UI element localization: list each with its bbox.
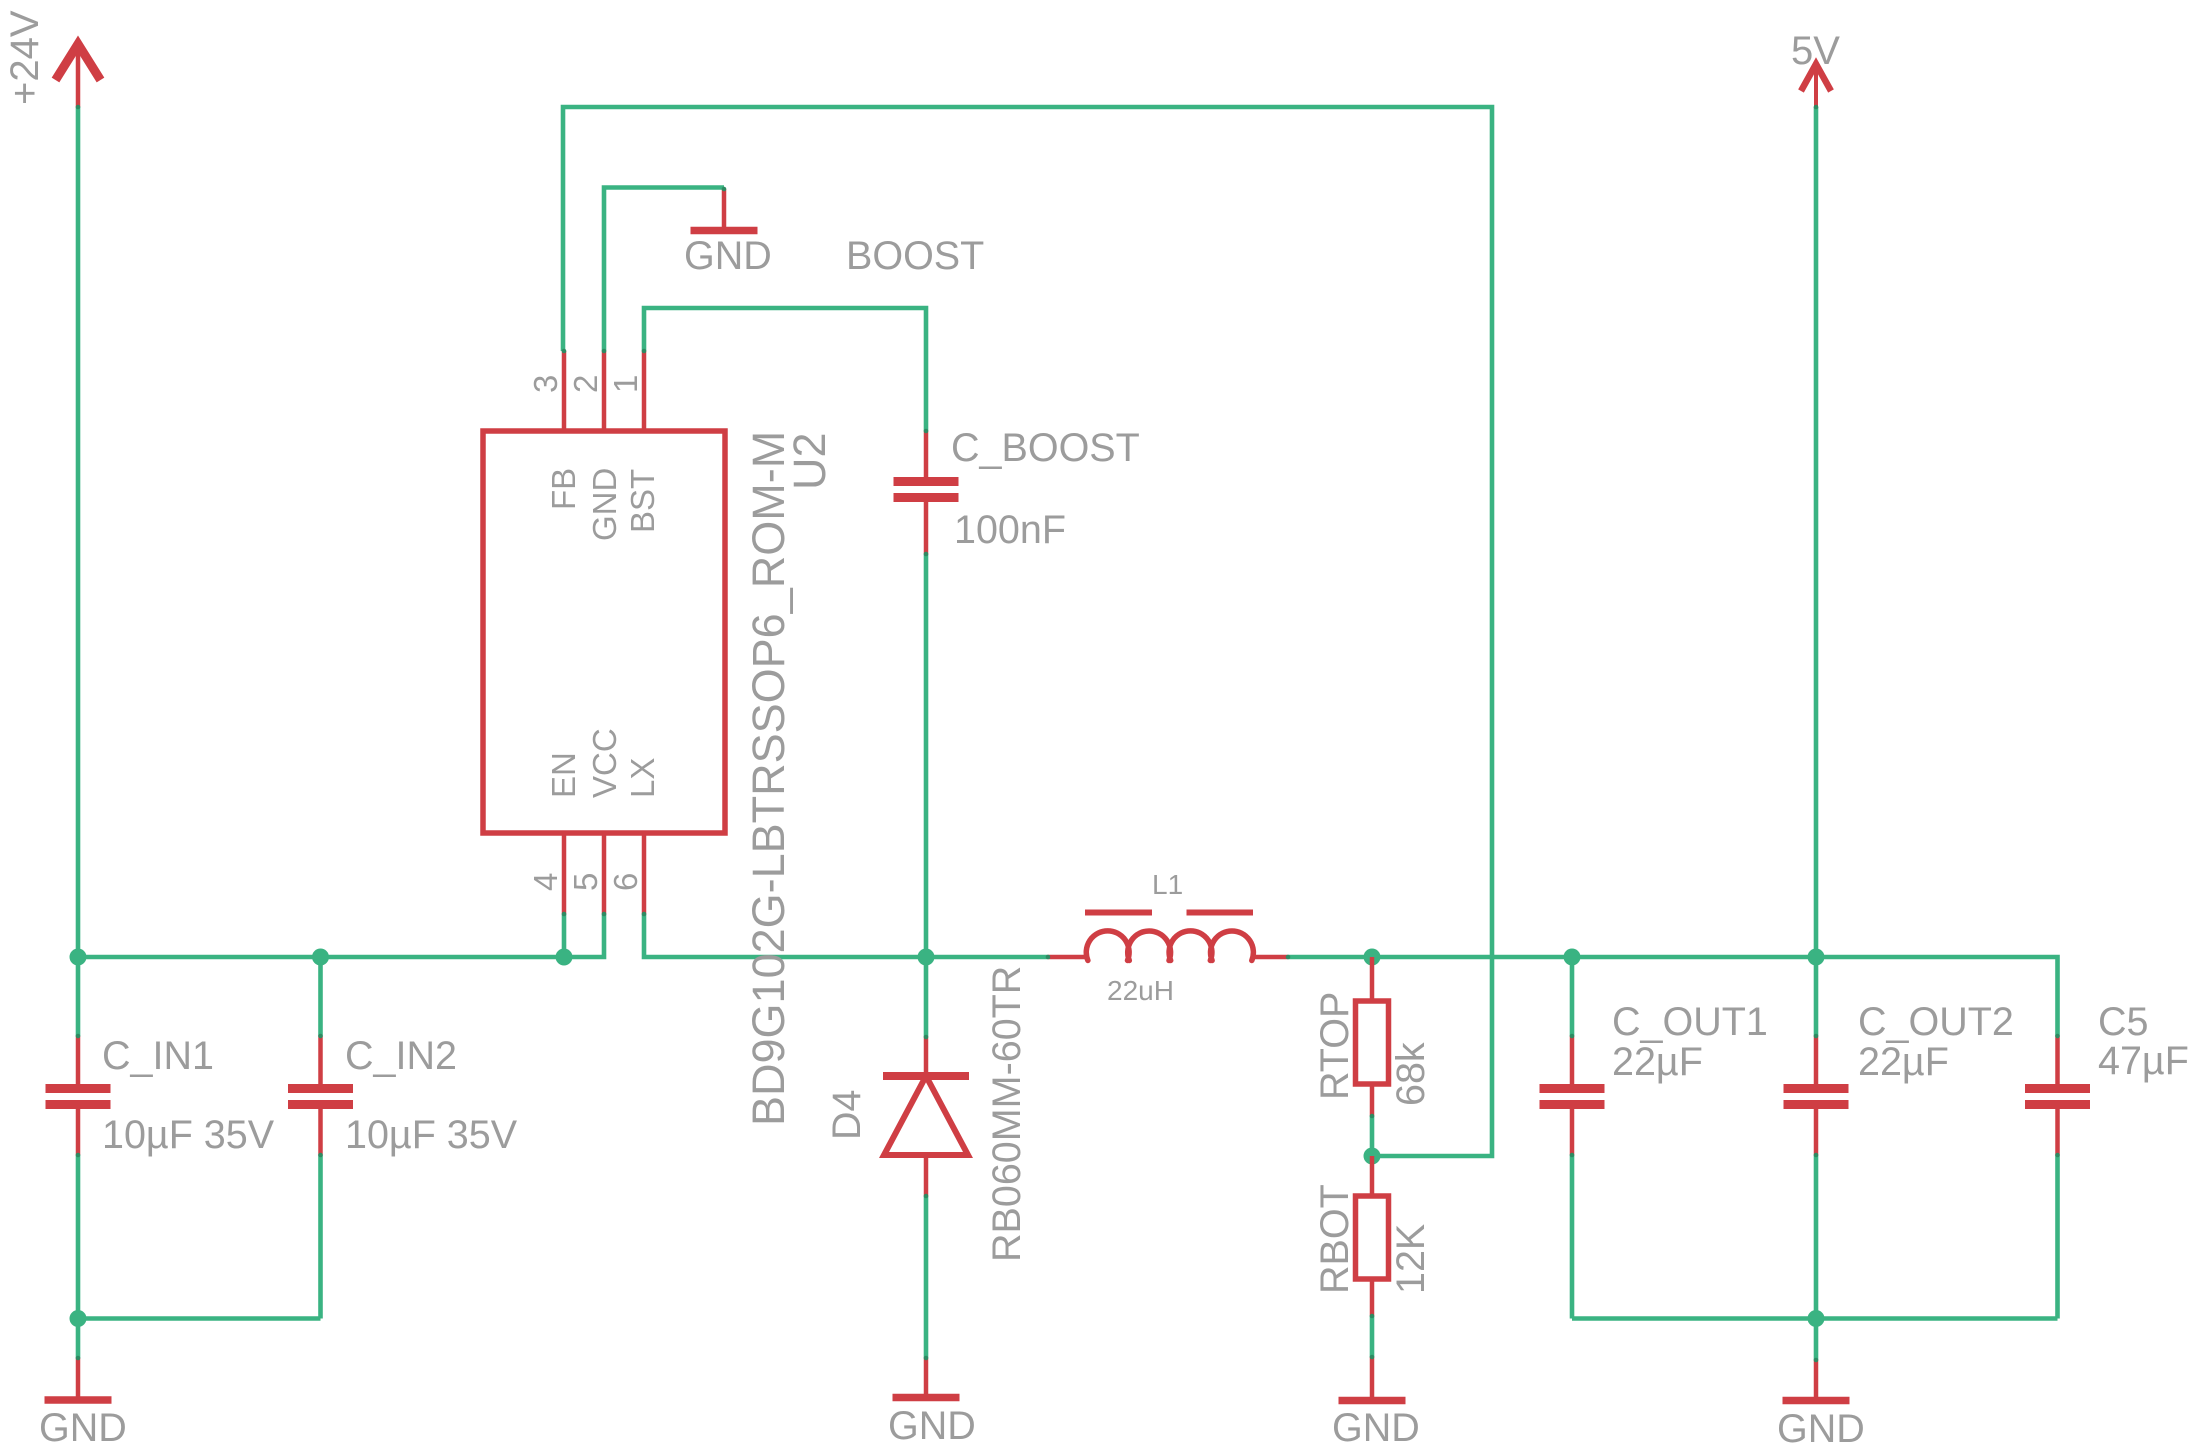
svg-text:22µF: 22µF <box>1858 1040 1949 1084</box>
op-amp U2 IC body <box>483 431 725 833</box>
wire C_OUT1 drop <box>1570 957 1575 1036</box>
svg-text:L1: L1 <box>1152 869 1183 900</box>
svg-text:68k: 68k <box>1389 1042 1433 1106</box>
svg-text:GND: GND <box>684 234 772 278</box>
wire BOOST net <box>644 308 926 431</box>
wire pin4 EN drop <box>562 914 567 957</box>
pin 4 stub <box>562 833 567 914</box>
svg-text:100nF: 100nF <box>954 508 1066 552</box>
svg-text:VCC: VCC <box>586 728 623 798</box>
svg-text:RB060MM-60TR: RB060MM-60TR <box>985 966 1029 1262</box>
capacitor C_BOOST <box>894 431 959 554</box>
wire +24V rail <box>76 107 81 957</box>
svg-text:12K: 12K <box>1389 1224 1433 1294</box>
capacitor C_OUT2 <box>1784 1036 1849 1155</box>
svg-text:RTOP: RTOP <box>1313 992 1357 1100</box>
wire L1 to output <box>1288 957 2058 1036</box>
svg-text:5V: 5V <box>1791 29 1840 73</box>
ground left GND <box>45 1358 112 1400</box>
wire left GND stub <box>76 1319 81 1359</box>
junction C_IN2/bus <box>312 949 329 966</box>
capacitor C_IN1 <box>46 1036 111 1155</box>
wire LX net <box>644 914 1048 957</box>
svg-text:BD9G102G-LBTRSSOP6_ROM-M: BD9G102G-LBTRSSOP6_ROM-M <box>743 431 794 1126</box>
ground D4 GND <box>893 1358 960 1398</box>
pin 2 stub <box>602 351 607 431</box>
svg-text:C5: C5 <box>2098 1000 2149 1044</box>
svg-text:4: 4 <box>527 873 564 891</box>
wire C_BOOST bottom <box>924 554 929 957</box>
wire right GND stub <box>1814 1319 1819 1361</box>
capacitor C_IN2 <box>288 1036 353 1155</box>
resistor RBOT <box>1356 1156 1389 1316</box>
wire RTOP-RBOT mid <box>1370 1116 1375 1156</box>
junction D4/LX <box>918 949 935 966</box>
svg-text:LX: LX <box>624 758 661 798</box>
svg-text:47µF: 47µF <box>2098 1039 2189 1083</box>
wire GND net <box>604 188 724 352</box>
junction RTOP/LX-out <box>1364 949 1381 966</box>
wire C_OUT1 bottom <box>1570 1155 1575 1319</box>
svg-text:C_OUT2: C_OUT2 <box>1858 1000 2014 1044</box>
pin 6 stub <box>642 833 647 914</box>
wire C_OUT2 bottom <box>1814 1155 1819 1319</box>
svg-text:10µF 35V: 10µF 35V <box>345 1113 518 1157</box>
svg-text:D4: D4 <box>825 1090 869 1141</box>
svg-text:1: 1 <box>607 375 644 393</box>
wire VIN bus <box>78 914 604 957</box>
svg-text:C_OUT1: C_OUT1 <box>1612 1000 1768 1044</box>
svg-text:RBOT: RBOT <box>1313 1184 1357 1294</box>
wire C_IN1 bottom <box>76 1155 81 1319</box>
ground RBOT GND <box>1339 1357 1406 1401</box>
junction FB divider <box>1364 1148 1381 1165</box>
svg-text:GND: GND <box>39 1406 127 1450</box>
capacitor C5 <box>2025 1036 2090 1155</box>
svg-text:C_IN2: C_IN2 <box>345 1034 457 1078</box>
svg-text:BOOST: BOOST <box>846 234 984 278</box>
svg-text:6: 6 <box>607 873 644 891</box>
svg-text:22µF: 22µF <box>1612 1040 1703 1084</box>
wire D4 top <box>924 957 929 1037</box>
svg-text:5: 5 <box>567 873 604 891</box>
pin 5 stub <box>602 833 607 914</box>
wire bottom right <box>1572 1316 2058 1321</box>
wire FB top <box>563 107 1492 1156</box>
wire bottom left <box>78 1316 321 1321</box>
capacitor C_OUT1 <box>1540 1036 1605 1155</box>
junction +24V/bus <box>70 949 87 966</box>
resistor RTOP <box>1356 957 1389 1116</box>
junction bottom right GND <box>1808 1310 1825 1327</box>
pin 3 stub <box>562 351 567 431</box>
svg-text:+24V: +24V <box>3 10 47 105</box>
junction 5V/out <box>1808 949 1825 966</box>
junction pin4/bus <box>556 949 573 966</box>
svg-text:GND: GND <box>1777 1407 1865 1451</box>
svg-text:GND: GND <box>888 1404 976 1448</box>
wire C_IN2 top <box>318 957 323 1036</box>
diode D4 <box>883 1037 969 1196</box>
svg-text:GND: GND <box>586 468 623 541</box>
pin end dots <box>76 105 2060 1363</box>
svg-text:22uH: 22uH <box>1107 975 1174 1006</box>
svg-text:C_BOOST: C_BOOST <box>951 426 1140 470</box>
svg-text:10µF 35V: 10µF 35V <box>102 1113 275 1157</box>
wire 5V rail <box>1814 107 1819 1036</box>
ground right GND <box>1783 1360 1850 1401</box>
power symbol +24V <box>56 44 101 107</box>
junction bottom left GND <box>70 1310 87 1327</box>
svg-text:C_IN1: C_IN1 <box>102 1034 214 1078</box>
pin 1 stub <box>642 351 647 431</box>
wire C_IN2 bottom <box>318 1155 323 1319</box>
junction C_OUT1/out <box>1564 949 1581 966</box>
svg-text:BST: BST <box>624 469 661 533</box>
svg-text:U2: U2 <box>784 432 835 490</box>
wire C_IN1 top <box>76 957 81 1036</box>
svg-text:EN: EN <box>545 752 582 798</box>
svg-text:FB: FB <box>545 468 582 510</box>
svg-text:3: 3 <box>527 375 564 393</box>
power symbol 5V <box>1801 64 1831 107</box>
wire RBOT bottom <box>1370 1316 1375 1357</box>
wire D4 bottom <box>924 1196 929 1358</box>
svg-text:GND: GND <box>1332 1406 1420 1450</box>
inductor L1 <box>1048 913 1288 961</box>
ground top GND <box>691 189 758 231</box>
svg-text:2: 2 <box>567 375 604 393</box>
wire C5 bottom <box>2055 1155 2060 1319</box>
